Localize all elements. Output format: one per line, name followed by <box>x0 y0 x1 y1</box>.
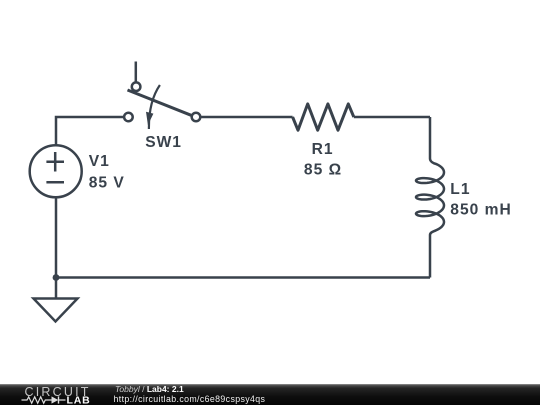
V1 plus sign <box>46 152 64 172</box>
junction node dot <box>53 274 60 281</box>
wire switch to resistor <box>201 116 292 119</box>
V1 minus sign <box>46 181 64 184</box>
switch blade <box>128 90 192 115</box>
ground symbol <box>34 299 78 322</box>
switch right terminal circle <box>192 113 201 122</box>
voltage source V1 circle <box>30 145 82 197</box>
resistor R1 zigzag <box>293 104 354 130</box>
switch actuation arrow curve <box>149 85 160 129</box>
wire resistor to top-right corner <box>354 116 430 119</box>
wire top-left from switch to source corner <box>56 117 123 145</box>
logo schematic squiggle: wire resistor diode <box>22 397 66 403</box>
svg-text:V1: V1 <box>89 153 110 170</box>
svg-text:L1: L1 <box>450 181 470 198</box>
footer black bar <box>0 384 540 405</box>
svg-text:R1: R1 <box>312 141 334 158</box>
logo diode cathode bar <box>58 396 60 403</box>
wire source bottom down to bottom rail <box>55 198 58 278</box>
logo diode triangle <box>52 396 59 403</box>
switch SW1 top stub wire <box>135 62 138 82</box>
bottom rail wire <box>56 276 430 279</box>
ground stub wire <box>55 278 58 299</box>
switch arrow head <box>146 112 153 125</box>
svg-text:Tobbyl / Lab4: 2.1: Tobbyl / Lab4: 2.1 <box>115 384 184 394</box>
svg-text:85 V: 85 V <box>89 174 125 191</box>
inductor L1 coil with leads <box>416 117 444 278</box>
svg-text:SW1: SW1 <box>145 134 182 151</box>
svg-text:850 mH: 850 mH <box>450 201 511 218</box>
svg-text:85 Ω: 85 Ω <box>304 162 342 179</box>
switch top terminal circle <box>132 82 141 91</box>
svg-text:http://circuitlab.com/c6e89csp: http://circuitlab.com/c6e89cspsy4qs <box>114 394 266 404</box>
svg-text:LAB: LAB <box>67 395 91 405</box>
switch left terminal circle <box>124 113 133 122</box>
